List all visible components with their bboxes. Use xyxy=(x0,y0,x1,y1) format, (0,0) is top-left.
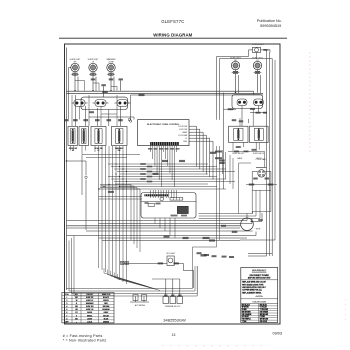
splice blob xyxy=(102,91,108,93)
wire xyxy=(271,59,273,257)
latch box xyxy=(141,193,196,219)
svg-text:DOOR SW: DOOR SW xyxy=(178,126,187,128)
wire xyxy=(216,57,218,120)
svg-text:TERMINAL BLOCK: TERMINAL BLOCK xyxy=(165,305,181,308)
wire xyxy=(99,196,142,198)
svg-text:6: 6 xyxy=(66,312,67,314)
splice blob xyxy=(228,108,234,110)
svg-text:L1: L1 xyxy=(185,138,187,140)
wire xyxy=(241,106,243,127)
wire xyxy=(256,53,258,59)
svg-text:AND INSULATION. USE 105 C: AND INSULATION. USE 105 C xyxy=(242,286,266,289)
wire xyxy=(269,53,271,257)
svg-text:1: 1 xyxy=(66,297,67,299)
electronic oven control U1 xyxy=(138,120,189,146)
splice blob xyxy=(249,184,255,186)
bus wire L1 xyxy=(67,90,254,92)
splice blob xyxy=(118,78,123,80)
infinite switch box right xyxy=(232,95,263,109)
svg-text:WHITE: WHITE xyxy=(103,300,109,302)
latch ring xyxy=(160,197,164,201)
wire xyxy=(246,184,277,186)
label xyxy=(232,231,238,233)
svg-text:3: 3 xyxy=(66,303,67,305)
latch connector xyxy=(144,194,168,196)
conv fan connector J2 xyxy=(256,166,267,168)
harness junctions xyxy=(115,163,116,164)
wire xyxy=(261,49,271,51)
svg-text:LOCK: LOCK xyxy=(87,321,93,323)
bake motor M1 xyxy=(241,218,254,231)
svg-text:4: 4 xyxy=(66,305,67,308)
limiter fuse F3 xyxy=(107,72,115,91)
wire xyxy=(240,239,275,241)
svg-text:GN GREEN: GN GREEN xyxy=(260,311,269,313)
splice blob xyxy=(250,108,255,110)
infinite switch S5 xyxy=(254,99,264,106)
surface switch SW6 xyxy=(250,126,269,142)
surface switch SW5 xyxy=(229,126,248,142)
svg-text:P PINK: P PINK xyxy=(260,316,266,318)
wire xyxy=(71,95,73,126)
limiter fuse F4 xyxy=(232,70,240,94)
svg-text:WR WH-RD: WR WH-RD xyxy=(260,319,269,321)
svg-text:SURF SW LR: SURF SW LR xyxy=(253,153,265,155)
wire xyxy=(220,58,273,60)
wire bundle left xyxy=(98,146,100,268)
svg-text:WIRE CLR: WIRE CLR xyxy=(102,294,111,296)
wire xyxy=(274,60,276,240)
svg-text:13: 13 xyxy=(172,333,176,337)
svg-text:PR PURPLE: PR PURPLE xyxy=(242,319,251,321)
svg-text:09/03: 09/03 xyxy=(273,331,283,335)
limiter fuse F2 xyxy=(89,72,97,91)
harness splice blobs xyxy=(140,163,146,165)
splice blob xyxy=(258,219,263,221)
connector wires xyxy=(150,145,152,152)
wire stubs xyxy=(70,146,72,151)
splice blob xyxy=(109,78,114,80)
svg-text:WIRING DIAGRAM: WIRING DIAGRAM xyxy=(153,33,192,38)
scan artifact dots xyxy=(162,52,346,346)
svg-text:# = Fast-moving Parts: # = Fast-moving Parts xyxy=(63,334,103,338)
wire xyxy=(89,116,134,118)
svg-text:WARNING: WARNING xyxy=(252,269,267,273)
limiter fuse F1 xyxy=(71,72,79,91)
svg-text:2: 2 xyxy=(66,300,67,302)
svg-text:GD GOLD: GD GOLD xyxy=(260,321,268,323)
wire xyxy=(249,49,253,51)
svg-text:LOCK SW: LOCK SW xyxy=(179,129,188,131)
component blob xyxy=(201,254,207,256)
splice blob xyxy=(139,94,145,96)
svg-text:OV LIGHT: OV LIGHT xyxy=(166,253,176,255)
legend table xyxy=(62,293,114,323)
wire xyxy=(111,85,117,87)
splice blob xyxy=(158,262,164,264)
svg-text:BLACK: BLACK xyxy=(103,296,110,299)
splice blob row xyxy=(95,119,100,121)
splice blob xyxy=(108,191,114,193)
svg-text:RF: RF xyxy=(72,150,74,152)
wire xyxy=(193,246,217,248)
infinite switch box xyxy=(81,97,128,109)
junction xyxy=(98,188,99,189)
wire xyxy=(67,225,241,227)
svg-text:BAKE: BAKE xyxy=(87,311,93,314)
infinite switch S4 xyxy=(237,99,247,106)
junction xyxy=(251,221,252,222)
wire left drop xyxy=(66,48,68,291)
svg-text:COOL FAN: COOL FAN xyxy=(178,134,188,137)
wire xyxy=(238,163,240,214)
wire xyxy=(141,201,196,203)
wire xyxy=(130,95,132,120)
splice blob row xyxy=(83,119,88,121)
svg-text:WARMER: WARMER xyxy=(86,302,94,305)
splice blob row xyxy=(73,119,78,121)
splice blob xyxy=(253,178,258,180)
svg-text:BROWN: BROWN xyxy=(103,306,110,308)
label row xyxy=(148,148,152,150)
svg-text:BU BLUE: BU BLUE xyxy=(260,304,267,306)
limiter fuse F5 xyxy=(254,70,262,94)
svg-text:NO.: NO. xyxy=(75,294,79,296)
wire xyxy=(266,50,268,256)
svg-text:ALT WIRING: ALT WIRING xyxy=(135,304,146,307)
title underline rule xyxy=(59,37,287,39)
infinite switch S1 xyxy=(74,100,85,107)
wire xyxy=(85,179,87,230)
wire xyxy=(93,82,99,84)
svg-text:7: 7 xyxy=(66,315,67,317)
junction ring xyxy=(85,176,87,178)
wire xyxy=(69,67,71,69)
wire xyxy=(165,279,167,297)
wire xyxy=(103,86,105,97)
svg-text:OVEN LIGHT: OVEN LIGHT xyxy=(252,44,265,46)
svg-text:SURF LR: SURF LR xyxy=(86,309,94,311)
bus wire L2 xyxy=(67,92,263,94)
infinite switch S3 xyxy=(117,100,128,107)
junction ring xyxy=(129,120,131,122)
wire xyxy=(251,190,253,214)
diagonal harness xyxy=(104,268,146,286)
wire xyxy=(123,262,167,264)
svg-text:SURF RR: SURF RR xyxy=(86,306,94,308)
svg-text:CIRCUIT: CIRCUIT xyxy=(86,294,94,296)
motor wire xyxy=(251,220,262,222)
diagram border frame xyxy=(65,44,281,324)
svg-text:W WHITE: W WHITE xyxy=(242,307,249,309)
surface switch SW2 xyxy=(79,127,89,146)
svg-text:5: 5 xyxy=(66,309,67,311)
splice blob xyxy=(236,146,241,148)
svg-text:WITH SAME GAUGE TYPE: WITH SAME GAUGE TYPE xyxy=(242,283,264,286)
svg-text:BAKE: BAKE xyxy=(237,157,243,160)
harness horizontal xyxy=(108,163,208,165)
svg-text:SURF LF: SURF LF xyxy=(86,300,93,302)
latch-to-fan wires xyxy=(199,213,253,215)
label bake xyxy=(215,151,222,153)
svg-text:OFF: OFF xyxy=(65,321,68,323)
wire xyxy=(232,143,234,152)
svg-text:WB WH-BK: WB WH-BK xyxy=(260,314,269,316)
splice blob xyxy=(232,119,237,121)
splice blob row xyxy=(118,119,123,121)
wire xyxy=(192,247,194,289)
wire xyxy=(81,155,83,195)
svg-text:ORANGE: ORANGE xyxy=(102,308,110,311)
svg-text:REPLACEMENT WIRES.: REPLACEMENT WIRES. xyxy=(242,291,262,294)
wire xyxy=(67,160,87,162)
svg-text:ELECTRONIC OVEN CONTROL: ELECTRONIC OVEN CONTROL xyxy=(147,124,180,126)
splice blob xyxy=(234,151,239,153)
latch dark box xyxy=(177,206,188,213)
wire xyxy=(131,94,263,96)
ground loops xyxy=(135,296,137,302)
svg-text:Publication No.: Publication No. xyxy=(257,19,282,23)
latch drop wires xyxy=(154,218,156,224)
svg-text:8: 8 xyxy=(66,318,67,320)
svg-text:COPPER WIRE FOR ALL: COPPER WIRE FOR ALL xyxy=(242,289,262,292)
svg-text:5995394519: 5995394519 xyxy=(260,24,281,28)
svg-text:CONV FAN: CONV FAN xyxy=(255,158,266,161)
long wires xyxy=(67,220,248,222)
svg-text:<NOTE>: <NOTE> xyxy=(255,295,264,298)
svg-text:SURF RF: SURF RF xyxy=(86,297,93,299)
wire xyxy=(120,80,122,90)
wire label blobs xyxy=(197,252,202,254)
infinite switch S2 xyxy=(95,100,106,107)
svg-text:SURF SW RR: SURF SW RR xyxy=(232,153,244,155)
splice blob xyxy=(256,112,261,114)
wire xyxy=(228,150,264,152)
svg-text:SW: SW xyxy=(118,150,121,152)
svg-text:BEFORE SERVICING UNIT: BEFORE SERVICING UNIT xyxy=(248,277,271,279)
component blob xyxy=(162,160,168,162)
splice blob row xyxy=(64,119,69,121)
svg-text:BR BROWN: BR BROWN xyxy=(242,311,252,313)
nested wires xyxy=(68,241,70,292)
inline connector xyxy=(121,261,125,264)
wire labels xyxy=(164,235,170,237)
surface switch SW3 xyxy=(91,127,106,146)
junction xyxy=(66,160,67,161)
EOC connector P1 xyxy=(150,142,179,145)
svg-text:V VIOLET: V VIOLET xyxy=(260,307,267,309)
conv fan leads xyxy=(251,172,253,191)
svg-text:REPLACE WIRE AND COLOR: REPLACE WIRE AND COLOR xyxy=(242,281,266,284)
svg-text:* MTR: * MTR xyxy=(255,228,261,230)
latch cells xyxy=(170,198,183,201)
component blob xyxy=(210,152,217,154)
latch blob xyxy=(145,202,149,204)
svg-text:COLOR CODE: COLOR CODE xyxy=(252,301,266,303)
junction xyxy=(74,90,75,91)
svg-text:VIOLET: VIOLET xyxy=(103,315,110,317)
surface switch SW4 xyxy=(112,127,128,146)
svg-text:* = Non-Illustrated Parts: * = Non-Illustrated Parts xyxy=(63,339,107,343)
splice blob xyxy=(89,111,94,113)
svg-text:GREEN: GREEN xyxy=(103,321,110,323)
wire xyxy=(82,154,140,156)
junction ring xyxy=(128,118,130,120)
wire xyxy=(74,95,76,126)
svg-text:LAMP: LAMP xyxy=(182,131,188,134)
splice blob xyxy=(263,49,267,51)
wire xyxy=(248,119,250,123)
harness corner turns xyxy=(100,184,131,186)
splice blob xyxy=(101,84,106,86)
terminal block TB1 xyxy=(163,297,169,304)
splice blob xyxy=(91,78,96,80)
wire xyxy=(248,255,267,257)
svg-text:3482553GW: 3482553GW xyxy=(163,317,186,322)
svg-text:BROIL: BROIL xyxy=(87,315,92,317)
svg-text:Y YELLOW: Y YELLOW xyxy=(260,309,269,311)
wire xyxy=(75,80,85,82)
warning box xyxy=(241,268,278,323)
latch labels xyxy=(171,215,178,217)
latch small box xyxy=(148,204,154,207)
wire xyxy=(262,93,264,94)
wire xyxy=(224,108,237,110)
splice blob xyxy=(221,225,226,227)
svg-text:GLEFS77C: GLEFS77C xyxy=(161,19,184,24)
wire xyxy=(258,106,260,113)
surface switch SW1 xyxy=(68,127,78,146)
splice blob row xyxy=(107,119,112,121)
